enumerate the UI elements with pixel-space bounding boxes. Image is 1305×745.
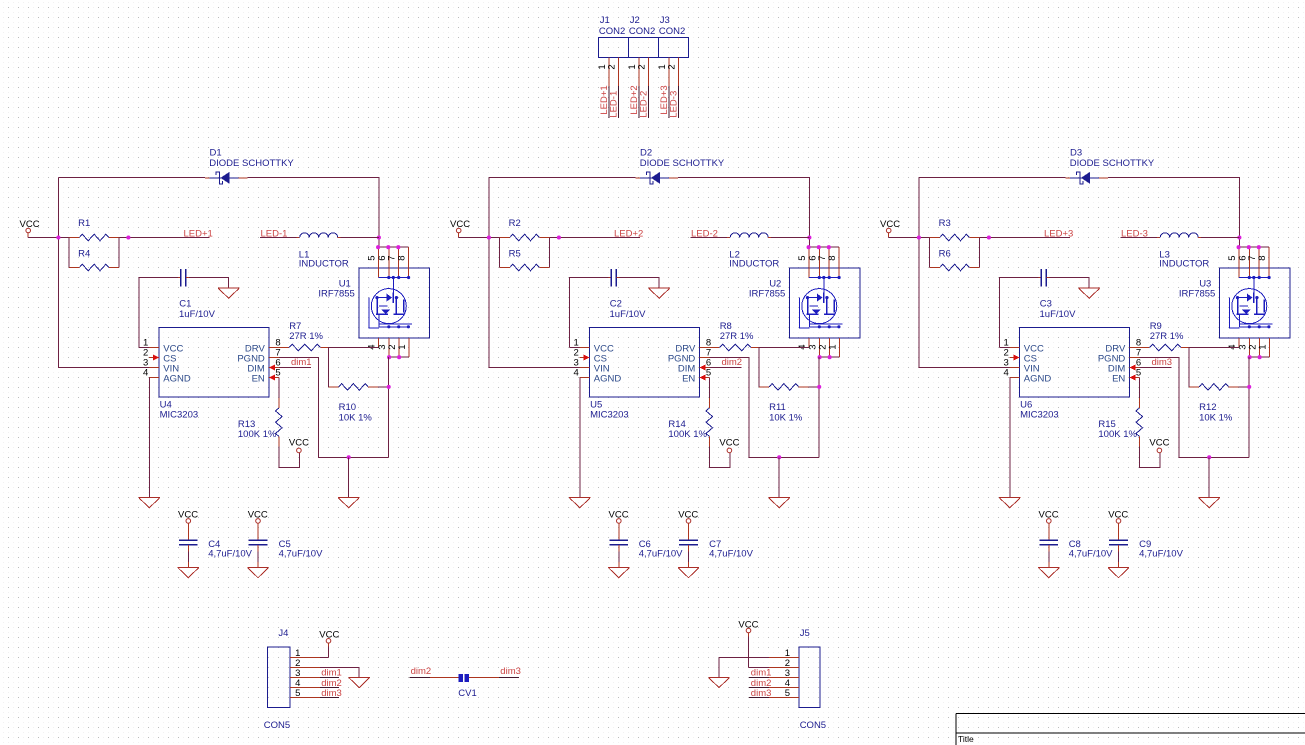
net label LED-3 (vertical)	[669, 91, 680, 118]
svg-text:100K 1%: 100K 1%	[668, 429, 707, 440]
wire	[708, 378, 710, 398]
connector J5	[769, 628, 826, 731]
title block	[956, 714, 1305, 745]
svg-text:CON5: CON5	[264, 720, 290, 731]
svg-text:1: 1	[1258, 344, 1269, 349]
ground	[139, 498, 160, 508]
resistor R11	[759, 384, 809, 424]
junction	[817, 385, 821, 389]
svg-text:1uF/10V: 1uF/10V	[610, 309, 647, 320]
transistor U2	[749, 247, 860, 357]
pin numbers 4 3 2 1 of U3	[1227, 344, 1268, 349]
junction	[557, 235, 561, 239]
svg-text:LED-2: LED-2	[639, 91, 650, 118]
svg-text:CON2: CON2	[599, 26, 625, 37]
wire	[28, 236, 68, 239]
junction	[56, 235, 60, 239]
svg-text:DIODE SCHOTTKY: DIODE SCHOTTKY	[640, 158, 725, 169]
svg-text:2: 2	[607, 64, 618, 69]
wire	[69, 238, 119, 268]
svg-text:EN: EN	[682, 374, 695, 385]
wire	[410, 677, 459, 679]
pin numbers 4 3 2 1 of U2	[797, 344, 838, 349]
junction	[377, 235, 381, 239]
wire	[58, 178, 149, 368]
svg-text:INDUCTOR: INDUCTOR	[729, 259, 779, 270]
svg-text:J3: J3	[660, 15, 670, 26]
ground	[1108, 567, 1129, 577]
wire	[459, 236, 500, 239]
svg-text:J4: J4	[278, 628, 288, 639]
wire	[320, 647, 328, 658]
resistor R12	[1189, 384, 1239, 424]
net label dim2 (CV1 left)	[411, 666, 432, 677]
power port VCC (C7)	[678, 509, 698, 526]
wire	[889, 236, 930, 239]
pin numbers 5 6 7 8 of U3	[1227, 255, 1268, 260]
net label LED+1 (vertical)	[599, 85, 610, 114]
wire	[1139, 446, 1160, 467]
power port VCC (channel 1 input)	[20, 219, 40, 237]
resistor R1	[69, 218, 120, 241]
wire	[279, 446, 300, 467]
svg-text:R3: R3	[939, 218, 951, 229]
connector J2	[629, 15, 659, 86]
svg-text:DIODE SCHOTTKY: DIODE SCHOTTKY	[1070, 158, 1155, 169]
pin numbers 1 2 of J1	[597, 64, 618, 69]
wire	[710, 367, 742, 369]
svg-text:27R 1%: 27R 1%	[289, 331, 323, 342]
diode D1	[205, 147, 295, 184]
svg-text:DIODE SCHOTTKY: DIODE SCHOTTKY	[209, 158, 294, 169]
svg-text:dim3: dim3	[1152, 357, 1173, 368]
transistor U1	[318, 247, 429, 357]
wire	[570, 278, 609, 348]
svg-text:4,7uF/10V: 4,7uF/10V	[279, 548, 323, 559]
pin numbers 8-5 of U6	[1136, 338, 1141, 379]
wire	[1189, 377, 1249, 387]
wire	[500, 238, 550, 268]
svg-text:R5: R5	[509, 248, 521, 259]
pin numbers 5 6 7 8 of U1	[367, 255, 408, 260]
svg-text:10K 1%: 10K 1%	[769, 412, 803, 423]
wire	[1000, 278, 1039, 348]
net label LED+3 (vertical)	[659, 85, 670, 114]
wire	[320, 668, 359, 678]
wire	[278, 378, 280, 398]
ground	[178, 567, 199, 577]
svg-text:1: 1	[397, 344, 408, 349]
wire	[759, 377, 819, 387]
pin numbers 1-4 of U4	[143, 338, 148, 379]
svg-text:MIC3203: MIC3203	[1020, 410, 1059, 421]
svg-text:CON2: CON2	[659, 26, 685, 37]
svg-text:R11: R11	[769, 402, 786, 413]
net label dim3 (CV1 right)	[500, 666, 521, 677]
svg-text:4: 4	[1004, 368, 1009, 379]
junction	[347, 455, 351, 459]
svg-text:LED-1: LED-1	[609, 91, 620, 118]
wire	[618, 552, 620, 568]
wire	[1140, 367, 1172, 369]
wire	[688, 552, 690, 568]
svg-text:VCC: VCC	[1149, 438, 1169, 449]
resistor R2	[499, 218, 550, 241]
svg-text:AGND: AGND	[1024, 374, 1052, 385]
wire	[329, 377, 389, 387]
net label LED+2 (vertical)	[629, 85, 640, 114]
wire	[1048, 552, 1050, 568]
capacitor C8	[1039, 523, 1113, 559]
wire	[148, 378, 150, 498]
capacitor C7	[679, 523, 753, 559]
power port VCC (C5)	[248, 509, 268, 526]
inductor L1	[297, 233, 349, 270]
svg-text:100K 1%: 100K 1%	[238, 429, 277, 440]
pin numbers 8-5 of U4	[275, 338, 280, 379]
svg-text:IRF7855: IRF7855	[1179, 288, 1215, 299]
net label dim2 (J4)	[321, 678, 342, 689]
op-amp U6 (MIC3203 LED driver IC)	[1010, 328, 1140, 421]
net label dim1	[291, 357, 312, 368]
wire	[749, 637, 769, 668]
net label LED-3	[1121, 229, 1148, 240]
svg-text:EN: EN	[1112, 374, 1125, 385]
junction	[487, 235, 491, 239]
diode D3	[1065, 147, 1155, 184]
wire	[489, 178, 580, 368]
wire	[639, 86, 649, 118]
svg-text:1uF/10V: 1uF/10V	[179, 309, 216, 320]
ground	[1038, 567, 1059, 577]
wire	[469, 677, 519, 679]
junction	[987, 235, 991, 239]
wire	[709, 446, 730, 467]
diode D2	[635, 147, 725, 184]
wire	[1118, 552, 1120, 568]
net label dim1 (J4)	[321, 668, 342, 679]
junction	[1207, 455, 1211, 459]
svg-text:VCC: VCC	[719, 438, 739, 449]
junction	[1248, 355, 1262, 359]
wire	[619, 278, 659, 288]
svg-text:dim3: dim3	[500, 666, 521, 677]
svg-text:CON2: CON2	[629, 26, 655, 37]
svg-text:R1: R1	[78, 218, 90, 229]
capacitor C6	[609, 523, 683, 559]
net label dim3 (J4)	[321, 688, 342, 699]
pin numbers 4 3 2 1 of U1	[367, 344, 408, 349]
power port VCC (C9)	[1108, 509, 1128, 526]
connector J3	[659, 15, 689, 86]
resistor R7	[279, 321, 328, 351]
net label dim1 (J5)	[751, 668, 772, 679]
wire	[320, 678, 339, 698]
capacitor C1	[178, 269, 216, 320]
resistor R10	[329, 384, 379, 424]
svg-text:2: 2	[637, 64, 648, 69]
net label LED+3	[1044, 228, 1073, 239]
pin numbers 1 2 of J3	[657, 64, 678, 69]
ground	[999, 498, 1020, 508]
svg-text:MIC3203: MIC3203	[590, 410, 629, 421]
svg-text:8: 8	[1257, 255, 1268, 260]
wire	[669, 86, 679, 118]
net label LED-1 (vertical)	[609, 91, 620, 118]
svg-text:27R 1%: 27R 1%	[1150, 331, 1184, 342]
svg-text:IRF7855: IRF7855	[318, 288, 354, 299]
wire	[820, 356, 840, 358]
svg-text:dim1: dim1	[291, 357, 312, 368]
svg-text:4,7uF/10V: 4,7uF/10V	[1139, 548, 1183, 559]
capacitor C4	[179, 523, 253, 559]
junction	[1237, 245, 1261, 249]
wire	[279, 358, 389, 458]
ground	[338, 498, 359, 508]
svg-text:8: 8	[397, 255, 408, 260]
svg-text:EN: EN	[252, 374, 265, 385]
wire	[609, 86, 619, 118]
ground	[649, 288, 670, 298]
wire	[719, 658, 769, 678]
capacitor C9	[1109, 523, 1183, 559]
op-amp U5 (MIC3203 LED driver IC)	[580, 328, 710, 421]
capacitor C2	[608, 269, 646, 320]
wire	[1250, 356, 1270, 358]
wire	[1189, 348, 1240, 377]
wire	[1009, 378, 1011, 498]
pin numbers 1-4 of U5	[574, 338, 579, 379]
svg-text:dim2: dim2	[722, 357, 743, 368]
svg-text:5: 5	[785, 688, 790, 699]
svg-text:dim3: dim3	[751, 688, 772, 699]
svg-text:J5: J5	[800, 628, 810, 639]
wire	[260, 237, 297, 239]
svg-text:100K 1%: 100K 1%	[1098, 429, 1137, 440]
net label LED+2	[614, 228, 643, 239]
wire	[388, 357, 390, 457]
resistor R6	[930, 248, 980, 270]
junction	[777, 455, 781, 459]
power port VCC (channel 3 input)	[880, 219, 900, 237]
wire	[189, 278, 229, 288]
svg-text:AGND: AGND	[163, 374, 191, 385]
wire	[919, 178, 1010, 368]
wire	[1049, 278, 1089, 288]
ground	[349, 677, 370, 687]
wire	[690, 237, 727, 239]
wire	[139, 278, 178, 348]
net label dim3	[1152, 357, 1173, 368]
wire	[279, 367, 311, 369]
resistor R8	[710, 321, 759, 351]
transistor U3	[1179, 247, 1290, 357]
ground	[1079, 288, 1100, 298]
svg-text:10K 1%: 10K 1%	[1199, 412, 1233, 423]
resistor R15	[1098, 398, 1142, 447]
wire	[120, 237, 210, 239]
svg-text:4: 4	[574, 368, 579, 379]
svg-text:LED-3: LED-3	[669, 91, 680, 118]
resistor R5	[500, 248, 550, 270]
svg-text:D2: D2	[640, 147, 652, 158]
svg-text:J1: J1	[600, 15, 610, 26]
svg-text:D3: D3	[1070, 147, 1082, 158]
svg-text:dim2: dim2	[411, 666, 432, 677]
wire	[579, 378, 581, 498]
svg-text:LED+1: LED+1	[184, 228, 213, 239]
resistor R13	[238, 398, 282, 447]
ground	[769, 498, 790, 508]
wire	[1108, 178, 1269, 248]
junction	[1247, 385, 1251, 389]
svg-text:5: 5	[706, 368, 711, 379]
power port VCC (channel 2 input)	[450, 219, 470, 237]
capacitor C3	[1038, 269, 1076, 320]
ground	[608, 567, 629, 577]
junction	[1237, 235, 1241, 239]
resistor R9	[1140, 321, 1189, 351]
svg-text:VCC: VCC	[289, 438, 309, 449]
svg-text:AGND: AGND	[594, 374, 622, 385]
svg-text:CV1: CV1	[458, 688, 476, 699]
wire	[759, 348, 810, 377]
resistor R14	[668, 398, 712, 447]
svg-text:IRF7855: IRF7855	[749, 288, 785, 299]
svg-text:LED+3: LED+3	[1044, 228, 1073, 239]
connector J4	[264, 628, 320, 731]
junction	[818, 355, 832, 359]
power port VCC (EN pullup, channel 3)	[1149, 438, 1169, 453]
wire	[710, 358, 820, 458]
wire	[930, 238, 980, 268]
wire	[678, 178, 839, 248]
svg-text:4,7uF/10V: 4,7uF/10V	[709, 548, 753, 559]
net label dim2	[722, 357, 743, 368]
power port VCC (C8)	[1039, 509, 1059, 526]
wire	[1201, 237, 1239, 239]
svg-text:5: 5	[295, 688, 300, 699]
op-amp U4 (MIC3203 LED driver IC)	[149, 328, 279, 421]
ground	[678, 567, 699, 577]
ground	[247, 567, 268, 577]
wire	[257, 552, 259, 568]
wire	[1120, 237, 1157, 239]
wire	[1208, 457, 1210, 497]
svg-text:INDUCTOR: INDUCTOR	[299, 259, 349, 270]
pin numbers 1-4 of U6	[1004, 338, 1009, 379]
wire	[187, 552, 189, 568]
power port VCC (C6)	[609, 509, 629, 526]
pin numbers 5 6 7 8 of U2	[797, 255, 838, 260]
wire	[58, 177, 204, 179]
net label LED+1	[184, 228, 213, 239]
capacitor C5	[249, 523, 323, 559]
power port VCC (EN pullup, channel 1)	[289, 438, 309, 453]
svg-text:10K 1%: 10K 1%	[339, 412, 373, 423]
svg-text:4,7uF/10V: 4,7uF/10V	[208, 548, 252, 559]
ground	[218, 288, 239, 298]
svg-text:1uF/10V: 1uF/10V	[1040, 309, 1077, 320]
inductor L2	[727, 233, 779, 270]
svg-text:2: 2	[667, 64, 678, 69]
svg-text:Title: Title	[958, 734, 974, 744]
svg-text:R10: R10	[339, 402, 356, 413]
svg-text:8: 8	[827, 255, 838, 260]
power port VCC (J4)	[319, 629, 339, 646]
wire	[778, 457, 780, 497]
wire	[248, 178, 409, 248]
svg-text:27R 1%: 27R 1%	[720, 331, 754, 342]
svg-text:4: 4	[143, 368, 148, 379]
wire	[771, 237, 809, 239]
power port VCC (C4)	[178, 509, 198, 526]
pin numbers 1-5 of J4	[295, 648, 300, 699]
pin numbers 1-5 of J5	[785, 648, 790, 699]
connector J1	[599, 15, 629, 86]
svg-text:R12: R12	[1199, 402, 1216, 413]
ground	[708, 677, 729, 687]
svg-text:R2: R2	[509, 218, 521, 229]
svg-text:INDUCTOR: INDUCTOR	[1159, 259, 1209, 270]
net label LED-2 (vertical)	[639, 91, 650, 118]
power port VCC (EN pullup, channel 2)	[719, 438, 739, 453]
svg-text:4,7uF/10V: 4,7uF/10V	[1069, 548, 1113, 559]
wire	[348, 457, 350, 497]
svg-text:LED+2: LED+2	[614, 228, 643, 239]
svg-text:4,7uF/10V: 4,7uF/10V	[639, 548, 683, 559]
wire	[1140, 358, 1250, 458]
junction	[126, 235, 130, 239]
svg-text:dim3: dim3	[321, 688, 342, 699]
svg-text:5: 5	[1136, 368, 1141, 379]
net label dim2 (J5)	[751, 678, 772, 689]
svg-text:R4: R4	[78, 248, 90, 259]
wire	[980, 237, 1070, 239]
net label LED-2	[691, 229, 718, 240]
pin numbers 1 2 of J2	[627, 64, 648, 69]
ground	[569, 498, 590, 508]
junction	[917, 235, 921, 239]
wire	[328, 348, 379, 377]
ground	[1199, 498, 1220, 508]
power port VCC (J5)	[738, 619, 758, 636]
resistor R4	[69, 248, 119, 270]
junction	[807, 245, 831, 249]
wire	[749, 678, 769, 698]
wire	[818, 357, 820, 457]
svg-text:1: 1	[828, 344, 839, 349]
wire	[489, 177, 635, 179]
svg-text:R6: R6	[939, 248, 951, 259]
wire	[389, 356, 409, 358]
svg-text:D1: D1	[210, 147, 222, 158]
junction	[387, 355, 401, 359]
wire	[550, 237, 640, 239]
junction	[807, 235, 811, 239]
pin numbers 8-5 of U5	[706, 338, 711, 379]
junction	[387, 385, 391, 389]
svg-text:MIC3203: MIC3203	[160, 410, 199, 421]
wire	[919, 177, 1065, 179]
jumper CV1	[458, 674, 476, 699]
junction	[376, 245, 400, 249]
inductor L3	[1157, 233, 1209, 270]
svg-text:J2: J2	[630, 15, 640, 26]
net label dim3 (J5)	[751, 688, 772, 699]
wire	[1248, 357, 1250, 457]
svg-text:CON5: CON5	[800, 720, 826, 731]
